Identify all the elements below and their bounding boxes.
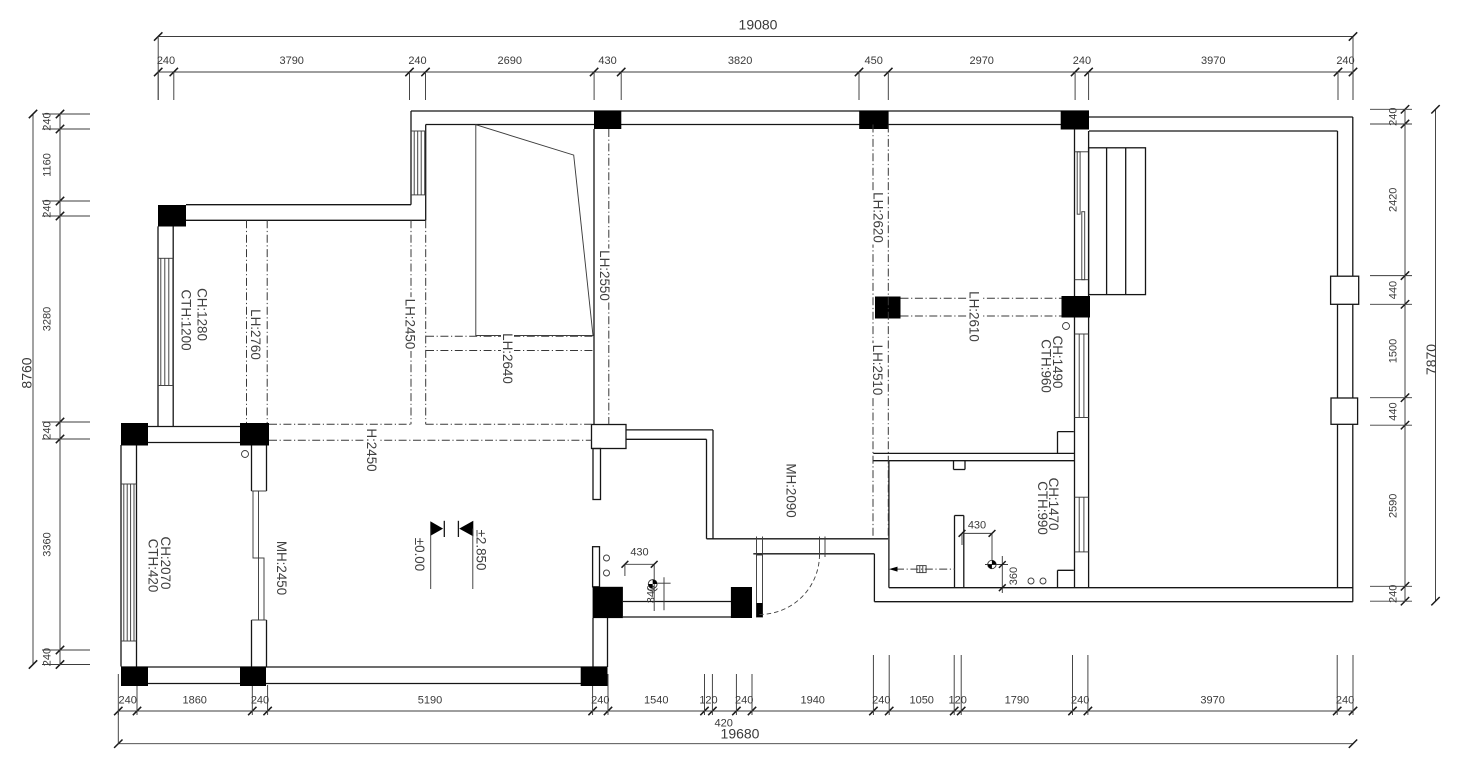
svg-text:CTH:990: CTH:990 xyxy=(1035,481,1050,535)
svg-text:1860: 1860 xyxy=(182,695,206,707)
svg-text:8760: 8760 xyxy=(19,357,35,388)
right overall dimension line 7870 xyxy=(1423,105,1440,605)
column entry west xyxy=(593,587,623,618)
shower curb step xyxy=(1058,570,1074,587)
shower partition wall xyxy=(955,516,964,588)
right dimension chain line xyxy=(1370,105,1412,605)
label CTH:990 xyxy=(1035,481,1050,535)
terrace parapet east xyxy=(1338,117,1353,602)
column top wall A xyxy=(594,111,621,130)
svg-text:240: 240 xyxy=(42,199,54,217)
svg-text:H:2450: H:2450 xyxy=(364,428,379,471)
dim 340 at entry xyxy=(646,577,671,610)
bathroom / right section bottom wall xyxy=(874,588,1352,602)
column upper-left wing xyxy=(158,205,186,227)
lower-left wing east wall xyxy=(252,445,267,667)
svg-text:240: 240 xyxy=(1071,695,1089,707)
level marker ±2.850 xyxy=(458,521,488,589)
svg-text:3820: 3820 xyxy=(728,55,752,67)
svg-text:1940: 1940 xyxy=(800,695,824,707)
wall line below column C1 xyxy=(593,129,595,425)
svg-text:19680: 19680 xyxy=(721,726,760,742)
north window wall at x=411 xyxy=(411,111,426,220)
svg-text:240: 240 xyxy=(1388,585,1400,603)
floor drain 1 xyxy=(1028,578,1034,584)
benchmark symbol entry xyxy=(648,580,657,591)
column top wall B xyxy=(859,111,888,130)
svg-text:360: 360 xyxy=(1008,567,1020,585)
column bottom east xyxy=(581,667,608,687)
svg-text:LH:2610: LH:2610 xyxy=(967,291,982,342)
svg-text:MH:2090: MH:2090 xyxy=(783,463,798,517)
label CH:2070 xyxy=(158,536,173,590)
svg-text:240: 240 xyxy=(408,55,426,67)
label LH:2550 xyxy=(597,249,612,303)
dim 360 in bathroom xyxy=(985,556,1020,593)
sliding door to stair terrace xyxy=(1075,152,1089,280)
top dimension labels xyxy=(157,55,1355,67)
label CH:1280 xyxy=(195,288,210,342)
left dimension labels xyxy=(42,112,54,666)
svg-text:440: 440 xyxy=(1388,402,1400,420)
beam LH:2550 vertical line xyxy=(608,129,610,424)
label LH:2620 xyxy=(871,191,886,245)
svg-text:1790: 1790 xyxy=(1005,695,1029,707)
label LH:2640 xyxy=(500,332,515,386)
svg-text:3280: 3280 xyxy=(42,307,54,331)
svg-text:1500: 1500 xyxy=(1388,339,1400,363)
label MH:2090 xyxy=(783,463,798,517)
svg-text:2970: 2970 xyxy=(969,55,993,67)
circle at stair column xyxy=(1063,323,1070,330)
svg-text:120: 120 xyxy=(949,695,967,707)
circle entry upper xyxy=(604,555,610,561)
svg-text:2420: 2420 xyxy=(1388,188,1400,212)
top main wall xyxy=(411,111,1089,125)
east wall of main house xyxy=(1075,125,1089,588)
svg-text:240: 240 xyxy=(42,112,54,130)
svg-text:3970: 3970 xyxy=(1201,55,1225,67)
svg-text:±0.00: ±0.00 xyxy=(412,538,427,571)
bottom wall of left wing / living room xyxy=(121,667,607,684)
window1 in east wall xyxy=(1075,334,1089,418)
svg-text:LH:2620: LH:2620 xyxy=(871,192,886,243)
bottom overall dimension line 19680 xyxy=(114,711,1357,748)
svg-text:240: 240 xyxy=(42,421,54,439)
svg-text:240: 240 xyxy=(1336,695,1354,707)
svg-text:LH:2640: LH:2640 xyxy=(500,333,515,384)
beam LH:2640 horizontal pair xyxy=(426,336,593,350)
benchmark symbol bathroom xyxy=(988,560,996,568)
top overall dimension line 19080 xyxy=(154,17,1357,41)
dim 430 in bathroom xyxy=(959,520,996,561)
sliding door MH:2450 in east wall xyxy=(252,491,267,620)
beam LH:2760 vertical pair xyxy=(247,220,268,423)
column top wall C xyxy=(1061,111,1089,130)
svg-text:MH:2450: MH:2450 xyxy=(274,541,289,595)
wall stub below shaft xyxy=(593,449,601,500)
label LH:2510 xyxy=(870,343,885,397)
svg-text:CTH:960: CTH:960 xyxy=(1039,339,1054,393)
svg-text:240: 240 xyxy=(735,695,753,707)
svg-text:240: 240 xyxy=(251,695,269,707)
svg-text:440: 440 xyxy=(1388,281,1400,299)
top dimension chain line xyxy=(154,37,1357,101)
shower head line with arrow xyxy=(889,566,955,573)
entry door leaf xyxy=(757,555,763,617)
svg-text:1160: 1160 xyxy=(42,153,54,177)
bottom dimension chain line xyxy=(114,655,1357,715)
beam LH:2450 vertical pair xyxy=(411,220,426,424)
svg-text:2590: 2590 xyxy=(1388,494,1400,518)
svg-text:240: 240 xyxy=(157,55,175,67)
corner notch above bathroom at east wall xyxy=(1058,432,1074,454)
svg-text:CTH:1200: CTH:1200 xyxy=(179,289,194,350)
lower-left wing west wall xyxy=(121,445,137,667)
bathroom north wall xyxy=(873,453,1074,460)
column mid east xyxy=(240,423,269,446)
column stair xyxy=(1062,296,1091,318)
svg-text:450: 450 xyxy=(865,55,883,67)
svg-text:240: 240 xyxy=(1388,108,1400,126)
label CH:1470 xyxy=(1046,477,1061,531)
column mid west xyxy=(121,423,148,446)
svg-text:240: 240 xyxy=(591,695,609,707)
svg-text:3790: 3790 xyxy=(279,55,303,67)
floor drain 2 xyxy=(1040,578,1046,584)
svg-text:LH:2510: LH:2510 xyxy=(870,345,885,396)
window in west wall (upper) xyxy=(158,258,173,385)
svg-text:240: 240 xyxy=(119,695,137,707)
column entry east xyxy=(731,587,752,618)
svg-text:7870: 7870 xyxy=(1423,344,1439,375)
svg-text:5190: 5190 xyxy=(418,695,442,707)
window in north wall x=411 xyxy=(411,131,426,195)
terrace column (white) upper xyxy=(1331,276,1359,304)
beam LH:2610 horizontal pair xyxy=(901,298,1062,316)
svg-text:LH:2760: LH:2760 xyxy=(248,309,263,360)
svg-text:3360: 3360 xyxy=(42,532,54,556)
left dimension chain line xyxy=(42,110,90,669)
closet south wall xyxy=(626,430,713,539)
bathroom west wall xyxy=(874,461,889,602)
svg-text:430: 430 xyxy=(630,547,648,559)
label MH:2450 xyxy=(274,541,289,595)
left overall dimension line 8760 xyxy=(19,110,38,669)
entry door swing arc xyxy=(760,555,820,615)
circle at mid column xyxy=(242,451,249,458)
upper-left wing west wall xyxy=(158,226,173,427)
label CTH:420 xyxy=(145,539,160,593)
svg-text:1050: 1050 xyxy=(909,695,933,707)
terrace parapet north xyxy=(1089,117,1353,131)
right dimension labels xyxy=(1388,108,1400,603)
svg-text:120: 120 xyxy=(699,695,717,707)
svg-text:430: 430 xyxy=(598,55,616,67)
entry door jambs xyxy=(757,537,826,558)
circle entry lower xyxy=(604,570,610,576)
label LH:2450 xyxy=(403,297,418,351)
closet shaft (white box) xyxy=(592,425,627,449)
notch below bathroom north wall xyxy=(954,461,966,470)
window2 in east wall xyxy=(1075,497,1089,552)
svg-text:240: 240 xyxy=(1336,55,1354,67)
stairs xyxy=(1089,148,1146,295)
svg-text:±2.850: ±2.850 xyxy=(474,530,489,571)
hall beam H:2450 horizontal lines xyxy=(269,424,592,440)
svg-text:LH:2450: LH:2450 xyxy=(403,299,418,350)
terrace column (white) lower xyxy=(1331,398,1358,424)
label CH:1490 xyxy=(1050,335,1065,389)
entry step wall between columns xyxy=(623,602,731,618)
svg-text:430: 430 xyxy=(968,520,986,532)
wardrobe sloped outline xyxy=(476,125,593,336)
upper-left wing top wall xyxy=(186,205,426,221)
svg-text:19080: 19080 xyxy=(739,17,778,33)
label CTH:960 xyxy=(1039,339,1054,393)
dim 430 at entry xyxy=(622,547,658,612)
level marker ±0.00 xyxy=(412,521,445,589)
svg-text:3970: 3970 xyxy=(1200,695,1224,707)
svg-text:240: 240 xyxy=(872,695,890,707)
svg-text:1540: 1540 xyxy=(644,695,668,707)
wall stub above entry column xyxy=(593,547,600,587)
middle dividing wall xyxy=(148,427,240,443)
svg-text:CTH:420: CTH:420 xyxy=(145,539,160,593)
label LH:2610 xyxy=(967,290,982,344)
svg-text:240: 240 xyxy=(1073,55,1091,67)
entry door header wall MH:2090 xyxy=(707,539,889,554)
connector wall to entry column xyxy=(593,618,608,667)
svg-text:LH:2550: LH:2550 xyxy=(597,250,612,301)
column dining xyxy=(875,297,901,319)
svg-text:2690: 2690 xyxy=(498,55,522,67)
column bottom west xyxy=(121,667,148,687)
column bottom mid xyxy=(240,667,266,687)
beam LH:2620 / LH:2510 vertical pair xyxy=(873,125,888,539)
svg-text:240: 240 xyxy=(42,648,54,666)
svg-text:CH:1280: CH:1280 xyxy=(195,288,210,341)
bottom dimension labels xyxy=(119,695,1355,707)
label H:2450 xyxy=(364,427,379,473)
label LH:2760 xyxy=(248,308,263,362)
label CTH:1200 xyxy=(179,289,194,351)
window in west wall (lower) xyxy=(121,484,137,641)
